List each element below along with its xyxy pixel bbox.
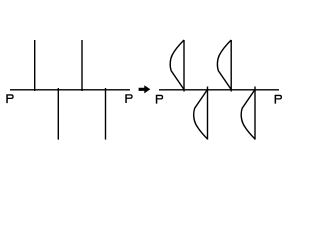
right diagram axis line bbox=[159, 89, 279, 91]
shaped pulse 4 down curve bbox=[241, 90, 255, 140]
left diagram axis line bbox=[10, 89, 130, 91]
node P label left of right axis bbox=[156, 95, 163, 104]
impulse line 4 down bbox=[105, 88, 107, 140]
node P label right of left axis bbox=[125, 94, 132, 103]
impulse line 2 down bbox=[57, 88, 59, 140]
shaped pulse 2 down line bbox=[207, 87, 209, 140]
shaped pulse 1 up curve bbox=[170, 40, 184, 90]
transform arrow bbox=[139, 85, 151, 93]
impulse line 1 up bbox=[34, 40, 36, 91]
node P label left of left axis bbox=[6, 94, 13, 103]
shaped pulse 3 up curve bbox=[217, 40, 231, 90]
shaped pulse 1 up line bbox=[183, 40, 185, 92]
node P label right of right axis bbox=[275, 95, 282, 104]
shaped pulse 4 down line bbox=[254, 87, 256, 140]
shaped pulse 3 up line bbox=[230, 40, 232, 92]
impulse line 3 up bbox=[81, 40, 83, 91]
shaped pulse 2 down curve bbox=[194, 90, 208, 140]
